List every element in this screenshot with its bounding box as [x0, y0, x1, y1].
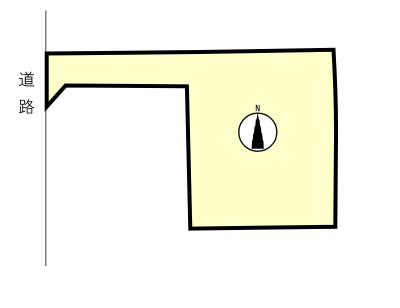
node road label 路 [19, 99, 34, 114]
land parcel outline [47, 50, 336, 229]
compass needle [252, 113, 264, 149]
node road label 道 [19, 72, 34, 87]
node compass N label [256, 105, 260, 111]
wire road edge line [45, 11, 47, 267]
compass circle [239, 113, 277, 151]
